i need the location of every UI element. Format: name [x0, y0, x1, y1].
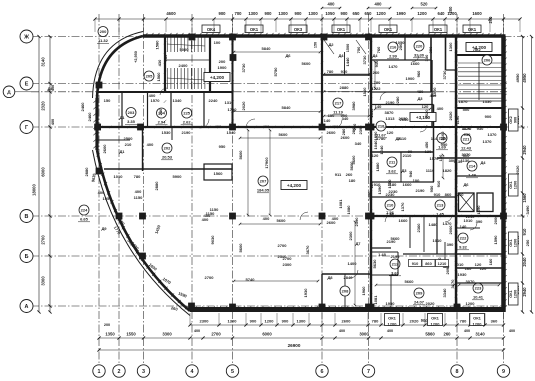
svg-text:900: 900: [265, 11, 273, 16]
svg-text:Г: Г: [25, 125, 28, 131]
svg-text:650: 650: [365, 11, 373, 16]
svg-text:5900: 5900: [173, 174, 183, 179]
svg-text:1081: 1081: [338, 199, 343, 209]
svg-text:780: 780: [372, 319, 379, 324]
svg-text:2700: 2700: [205, 275, 215, 280]
svg-text:910: 910: [412, 261, 419, 266]
svg-text:2700: 2700: [278, 243, 288, 248]
svg-text:780: 780: [134, 174, 141, 179]
svg-text:2020: 2020: [241, 101, 246, 111]
svg-text:1050: 1050: [325, 11, 335, 16]
svg-text:700: 700: [235, 11, 243, 16]
svg-text:184.05: 184.05: [257, 188, 270, 193]
svg-text:1200: 1200: [514, 239, 518, 247]
svg-text:Д2: Д2: [328, 42, 334, 47]
svg-text:1880: 1880: [375, 162, 380, 172]
svg-text:1560: 1560: [214, 171, 224, 176]
svg-text:2230: 2230: [389, 189, 399, 194]
svg-text:202: 202: [164, 146, 171, 151]
svg-text:3000: 3000: [359, 332, 369, 337]
svg-text:780: 780: [327, 69, 334, 74]
svg-text:Д1: Д1: [119, 115, 125, 120]
svg-text:3170: 3170: [450, 279, 455, 289]
svg-text:2880: 2880: [340, 85, 350, 90]
svg-text:900: 900: [514, 117, 518, 123]
svg-text:210: 210: [125, 142, 132, 147]
svg-text:2600: 2600: [342, 319, 352, 324]
svg-text:1.48: 1.48: [378, 252, 387, 257]
svg-text:5000: 5000: [180, 47, 190, 52]
svg-text:1590: 1590: [493, 235, 498, 245]
svg-text:2700: 2700: [41, 235, 46, 245]
svg-text:3980: 3980: [351, 101, 356, 111]
svg-text:1900: 1900: [406, 76, 416, 81]
svg-text:900: 900: [295, 11, 303, 16]
svg-text:2190: 2190: [416, 188, 426, 193]
svg-text:1560: 1560: [522, 193, 527, 203]
svg-text:5600: 5600: [238, 150, 243, 160]
svg-text:9: 9: [502, 369, 505, 375]
svg-text:1950: 1950: [103, 196, 113, 201]
svg-text:1570: 1570: [151, 98, 161, 103]
svg-text:1080: 1080: [346, 205, 351, 215]
svg-text:ОК1: ОК1: [250, 27, 259, 32]
svg-text:ОК1: ОК1: [337, 27, 346, 32]
svg-text:3490: 3490: [525, 205, 530, 215]
svg-text:1190: 1190: [455, 115, 460, 124]
svg-text:214: 214: [469, 164, 476, 169]
svg-text:1390: 1390: [476, 205, 481, 215]
svg-text:400: 400: [437, 106, 444, 111]
svg-text:1930: 1930: [303, 288, 308, 298]
svg-text:ОК2: ОК2: [509, 116, 513, 123]
svg-text:140: 140: [460, 224, 467, 229]
svg-text:ОК1: ОК1: [468, 27, 477, 32]
svg-text:1200: 1200: [466, 301, 476, 306]
svg-text:ОК1: ОК1: [434, 27, 443, 32]
svg-text:114: 114: [431, 136, 438, 141]
svg-text:400: 400: [339, 329, 345, 333]
svg-text:1990: 1990: [396, 11, 406, 16]
svg-text:1210: 1210: [438, 261, 447, 266]
svg-text:400: 400: [147, 142, 154, 147]
svg-text:100: 100: [214, 40, 221, 45]
svg-text:18000: 18000: [32, 184, 37, 196]
svg-text:+4,200: +4,200: [287, 183, 302, 188]
svg-text:2.99: 2.99: [389, 54, 398, 59]
svg-text:2020: 2020: [426, 301, 436, 306]
svg-text:1960: 1960: [361, 286, 366, 296]
svg-text:Д6: Д6: [463, 182, 469, 187]
svg-text:1530: 1530: [162, 130, 172, 135]
svg-text:450: 450: [424, 141, 429, 148]
svg-text:5600: 5600: [277, 218, 287, 223]
svg-text:3.35: 3.35: [127, 119, 136, 124]
svg-text:900: 900: [250, 319, 257, 324]
svg-text:860: 860: [445, 192, 452, 197]
svg-text:860: 860: [425, 261, 432, 266]
svg-text:А: А: [25, 304, 29, 310]
svg-text:5600: 5600: [279, 132, 289, 137]
svg-text:210: 210: [387, 203, 394, 208]
svg-text:2880: 2880: [84, 167, 89, 177]
svg-text:940: 940: [408, 170, 413, 177]
svg-text:1040: 1040: [379, 145, 384, 155]
svg-text:2300: 2300: [200, 319, 210, 324]
svg-text:950: 950: [429, 185, 434, 192]
svg-text:220: 220: [416, 44, 423, 49]
svg-text:5600: 5600: [238, 243, 243, 253]
svg-text:207: 207: [260, 179, 267, 184]
svg-text:1660: 1660: [411, 61, 421, 66]
svg-text:4: 4: [191, 369, 194, 375]
svg-text:5860: 5860: [425, 332, 435, 337]
svg-text:200: 200: [100, 29, 107, 34]
svg-text:1820: 1820: [443, 168, 453, 173]
svg-text:6: 6: [321, 369, 324, 375]
svg-text:1200: 1200: [514, 181, 518, 189]
svg-text:1080: 1080: [387, 179, 392, 189]
svg-text:26900: 26900: [288, 343, 301, 348]
svg-text:Д4: Д4: [47, 86, 53, 91]
svg-text:2400: 2400: [179, 63, 189, 68]
svg-text:260: 260: [346, 172, 353, 177]
svg-text:3730: 3730: [362, 55, 367, 65]
svg-text:340: 340: [355, 141, 362, 146]
svg-text:120: 120: [422, 104, 429, 109]
svg-text:1010: 1010: [464, 218, 474, 223]
svg-text:ОК1: ОК1: [473, 316, 482, 321]
svg-text:11.32: 11.32: [98, 38, 109, 43]
svg-text:Ж: Ж: [23, 34, 29, 40]
svg-text:200: 200: [104, 323, 110, 327]
svg-text:1170: 1170: [462, 126, 471, 131]
svg-text:1340: 1340: [173, 98, 183, 103]
svg-text:910: 910: [341, 69, 348, 74]
svg-text:400: 400: [464, 329, 470, 333]
svg-text:Д4: Д4: [372, 53, 378, 58]
svg-text:1300: 1300: [248, 11, 258, 16]
svg-text:4600: 4600: [166, 11, 176, 16]
svg-text:1660: 1660: [399, 218, 409, 223]
svg-text:1050: 1050: [396, 40, 406, 45]
svg-text:ЛК2: ЛК2: [473, 47, 481, 52]
svg-text:+2,950: +2,950: [134, 51, 138, 63]
svg-text:2390: 2390: [358, 125, 363, 135]
svg-text:350: 350: [424, 54, 429, 61]
svg-text:960: 960: [416, 70, 421, 77]
svg-text:390: 390: [476, 219, 483, 224]
svg-text:950: 950: [219, 144, 226, 149]
svg-text:1300: 1300: [228, 319, 238, 324]
svg-text:ОК1: ОК1: [384, 27, 393, 32]
svg-text:140: 140: [324, 118, 331, 123]
svg-text:900: 900: [421, 318, 429, 324]
svg-text:1300: 1300: [297, 319, 307, 324]
svg-text:206: 206: [484, 58, 491, 63]
svg-text:9.32: 9.32: [459, 245, 468, 250]
svg-text:280: 280: [341, 128, 346, 135]
svg-text:1: 1: [98, 369, 101, 375]
svg-text:2300: 2300: [283, 262, 293, 267]
svg-text:3300: 3300: [41, 276, 46, 286]
svg-text:360: 360: [491, 319, 498, 324]
svg-text:5750: 5750: [273, 67, 278, 77]
svg-text:24.07: 24.07: [414, 300, 425, 305]
svg-text:ОК1: ОК1: [431, 316, 440, 321]
svg-text:1480: 1480: [429, 222, 439, 227]
svg-text:230: 230: [352, 123, 357, 130]
svg-text:5660: 5660: [405, 279, 415, 284]
svg-text:6000: 6000: [262, 332, 272, 337]
svg-text:1150: 1150: [210, 207, 219, 212]
svg-text:930: 930: [477, 126, 484, 131]
svg-text:1580: 1580: [155, 40, 160, 50]
svg-text:Д3: Д3: [401, 168, 407, 173]
svg-text:150: 150: [314, 42, 318, 48]
svg-text:4950: 4950: [522, 73, 527, 83]
svg-text:911: 911: [335, 172, 342, 177]
svg-text:3: 3: [142, 369, 145, 375]
svg-text:Д3: Д3: [417, 96, 423, 101]
svg-text:2300: 2300: [348, 231, 353, 241]
svg-text:400: 400: [194, 329, 200, 333]
svg-text:2940: 2940: [522, 145, 527, 155]
svg-text:400: 400: [135, 189, 142, 194]
svg-text:1660: 1660: [403, 182, 413, 187]
svg-text:1010: 1010: [433, 238, 443, 243]
svg-text:5600: 5600: [368, 266, 373, 276]
svg-text:400: 400: [215, 124, 222, 129]
svg-text:2020: 2020: [410, 319, 420, 324]
svg-text:1200: 1200: [473, 322, 483, 327]
svg-text:Д1: Д1: [119, 149, 125, 154]
svg-text:1010: 1010: [455, 262, 465, 267]
svg-text:Д6: Д6: [285, 53, 291, 58]
svg-text:209: 209: [416, 291, 423, 296]
svg-text:2240: 2240: [209, 98, 219, 103]
svg-text:340: 340: [342, 116, 349, 121]
svg-text:223: 223: [475, 286, 482, 291]
svg-text:120: 120: [480, 266, 487, 271]
svg-text:3730: 3730: [241, 63, 246, 73]
svg-text:Д: Д: [7, 90, 11, 96]
svg-text:1470: 1470: [443, 221, 453, 226]
svg-text:2.62: 2.62: [183, 120, 192, 125]
svg-text:217: 217: [335, 101, 342, 106]
svg-text:Б: Б: [25, 254, 29, 260]
svg-text:2700: 2700: [211, 332, 221, 337]
svg-text:12.43: 12.43: [461, 146, 472, 151]
svg-text:2040: 2040: [522, 257, 527, 267]
svg-text:1310: 1310: [225, 100, 235, 105]
svg-text:1210: 1210: [455, 192, 465, 197]
svg-text:1560: 1560: [156, 72, 161, 82]
svg-text:430: 430: [157, 59, 162, 66]
svg-text:2360: 2360: [416, 223, 421, 233]
svg-text:2000: 2000: [448, 225, 453, 235]
svg-text:7: 7: [367, 369, 370, 375]
svg-text:5600: 5600: [302, 61, 312, 66]
svg-text:5: 5: [231, 369, 234, 375]
svg-text:1222: 1222: [372, 86, 382, 91]
svg-text:1440: 1440: [345, 57, 350, 67]
svg-text:2630: 2630: [400, 117, 410, 122]
svg-text:7.56: 7.56: [386, 210, 395, 215]
svg-text:3340: 3340: [442, 288, 447, 298]
svg-text:Д4: Д4: [338, 53, 344, 58]
svg-text:1470: 1470: [389, 64, 399, 69]
svg-text:3140: 3140: [475, 332, 485, 337]
svg-text:3300: 3300: [162, 332, 172, 337]
svg-text:1370: 1370: [400, 202, 405, 212]
svg-text:900: 900: [282, 319, 289, 324]
svg-text:3140: 3140: [41, 57, 46, 67]
svg-text:120: 120: [425, 149, 432, 154]
svg-text:1950: 1950: [386, 301, 396, 306]
svg-text:2020: 2020: [424, 109, 429, 119]
svg-text:203: 203: [128, 110, 135, 115]
svg-text:6.65: 6.65: [80, 217, 89, 222]
svg-text:120: 120: [372, 153, 379, 158]
svg-text:3.62: 3.62: [388, 169, 397, 174]
svg-text:750: 750: [356, 46, 361, 53]
svg-text:200: 200: [219, 59, 226, 64]
svg-text:150: 150: [104, 98, 111, 103]
svg-text:2020: 2020: [515, 165, 520, 175]
svg-text:260: 260: [444, 332, 452, 337]
svg-text:400: 400: [375, 2, 383, 7]
svg-text:910: 910: [436, 180, 441, 187]
svg-text:2: 2: [118, 369, 121, 375]
svg-text:222: 222: [460, 236, 467, 241]
svg-text:900: 900: [341, 11, 349, 16]
svg-text:1390: 1390: [377, 185, 382, 195]
svg-text:5600: 5600: [349, 161, 354, 171]
svg-text:350: 350: [428, 46, 433, 53]
svg-text:1500: 1500: [346, 44, 350, 52]
svg-text:1400: 1400: [348, 261, 358, 266]
svg-text:1150: 1150: [134, 195, 143, 200]
svg-text:90: 90: [408, 149, 413, 154]
svg-text:+4,200: +4,200: [210, 75, 225, 80]
svg-text:390: 390: [447, 242, 454, 247]
svg-text:1300: 1300: [308, 11, 318, 16]
svg-text:910: 910: [522, 228, 527, 236]
svg-text:300: 300: [441, 136, 448, 141]
svg-text:Д5: Д5: [395, 136, 401, 141]
svg-text:5660: 5660: [391, 236, 401, 241]
svg-text:Д7: Д7: [355, 241, 361, 246]
svg-text:8: 8: [456, 369, 459, 375]
svg-text:2880: 2880: [154, 181, 159, 191]
svg-text:960: 960: [163, 54, 168, 61]
svg-text:900: 900: [485, 114, 492, 119]
svg-text:1200: 1200: [265, 319, 275, 324]
svg-text:10.41: 10.41: [473, 295, 484, 300]
svg-text:260: 260: [373, 70, 380, 75]
svg-text:211: 211: [389, 160, 396, 165]
svg-text:240: 240: [158, 108, 163, 115]
svg-text:ОК4: ОК4: [207, 27, 216, 32]
svg-text:1313: 1313: [386, 116, 396, 121]
svg-text:2.94: 2.94: [158, 120, 167, 125]
svg-text:480: 480: [417, 89, 424, 94]
svg-text:2600: 2600: [102, 144, 107, 154]
svg-text:2280: 2280: [395, 96, 400, 106]
svg-text:400: 400: [328, 2, 336, 7]
svg-text:950: 950: [441, 142, 448, 147]
svg-text:2190: 2190: [386, 100, 396, 105]
svg-text:400: 400: [204, 213, 211, 218]
svg-text:900: 900: [219, 11, 227, 16]
svg-text:Е: Е: [25, 81, 29, 87]
svg-text:2940: 2940: [522, 287, 527, 297]
svg-text:120: 120: [387, 130, 394, 135]
svg-text:300: 300: [449, 158, 456, 163]
svg-text:1200: 1200: [388, 322, 398, 327]
svg-text:400: 400: [51, 119, 55, 125]
svg-text:1200: 1200: [514, 290, 518, 298]
svg-text:1130: 1130: [461, 158, 470, 163]
svg-text:910: 910: [434, 192, 441, 197]
svg-text:ОК1: ОК1: [509, 181, 513, 188]
svg-text:2600: 2600: [327, 130, 337, 135]
svg-text:1900: 1900: [218, 65, 228, 70]
svg-text:400: 400: [387, 329, 393, 333]
svg-text:1930: 1930: [458, 272, 468, 277]
svg-text:ОК1: ОК1: [509, 290, 513, 297]
svg-text:480: 480: [430, 93, 437, 98]
svg-text:3870: 3870: [385, 110, 395, 115]
svg-text:2460: 2460: [80, 102, 85, 112]
svg-text:Д4: Д4: [480, 160, 486, 165]
svg-text:2020: 2020: [448, 111, 453, 121]
svg-text:2840: 2840: [344, 275, 354, 280]
svg-text:1010: 1010: [114, 174, 124, 179]
svg-text:2310: 2310: [369, 108, 374, 118]
svg-text:1110: 1110: [426, 168, 435, 173]
svg-text:640: 640: [438, 11, 446, 16]
svg-text:224: 224: [81, 208, 88, 213]
svg-text:1.49: 1.49: [468, 173, 477, 178]
svg-text:1200: 1200: [431, 322, 441, 327]
svg-text:Д9: Д9: [101, 226, 107, 231]
svg-text:2190: 2190: [182, 130, 192, 135]
svg-text:650: 650: [353, 11, 361, 16]
svg-text:400: 400: [332, 216, 339, 221]
svg-text:160: 160: [465, 266, 472, 271]
svg-text:1370: 1370: [488, 132, 498, 137]
svg-text:3670: 3670: [305, 245, 310, 255]
svg-text:221: 221: [463, 137, 470, 142]
svg-text:1550: 1550: [126, 332, 136, 337]
svg-text:17900: 17900: [264, 157, 269, 169]
svg-text:3730: 3730: [442, 70, 447, 80]
svg-text:250: 250: [525, 239, 530, 246]
svg-text:ОК1: ОК1: [388, 316, 397, 321]
svg-text:200: 200: [448, 6, 453, 14]
svg-text:208: 208: [342, 289, 349, 294]
svg-text:4950: 4950: [515, 73, 520, 83]
svg-text:2500: 2500: [124, 136, 134, 141]
svg-text:400: 400: [332, 124, 339, 129]
svg-text:2190: 2190: [391, 254, 401, 259]
svg-text:400: 400: [98, 190, 105, 195]
svg-text:1200: 1200: [376, 11, 386, 16]
svg-text:6000: 6000: [41, 167, 46, 177]
svg-text:225: 225: [183, 111, 190, 116]
